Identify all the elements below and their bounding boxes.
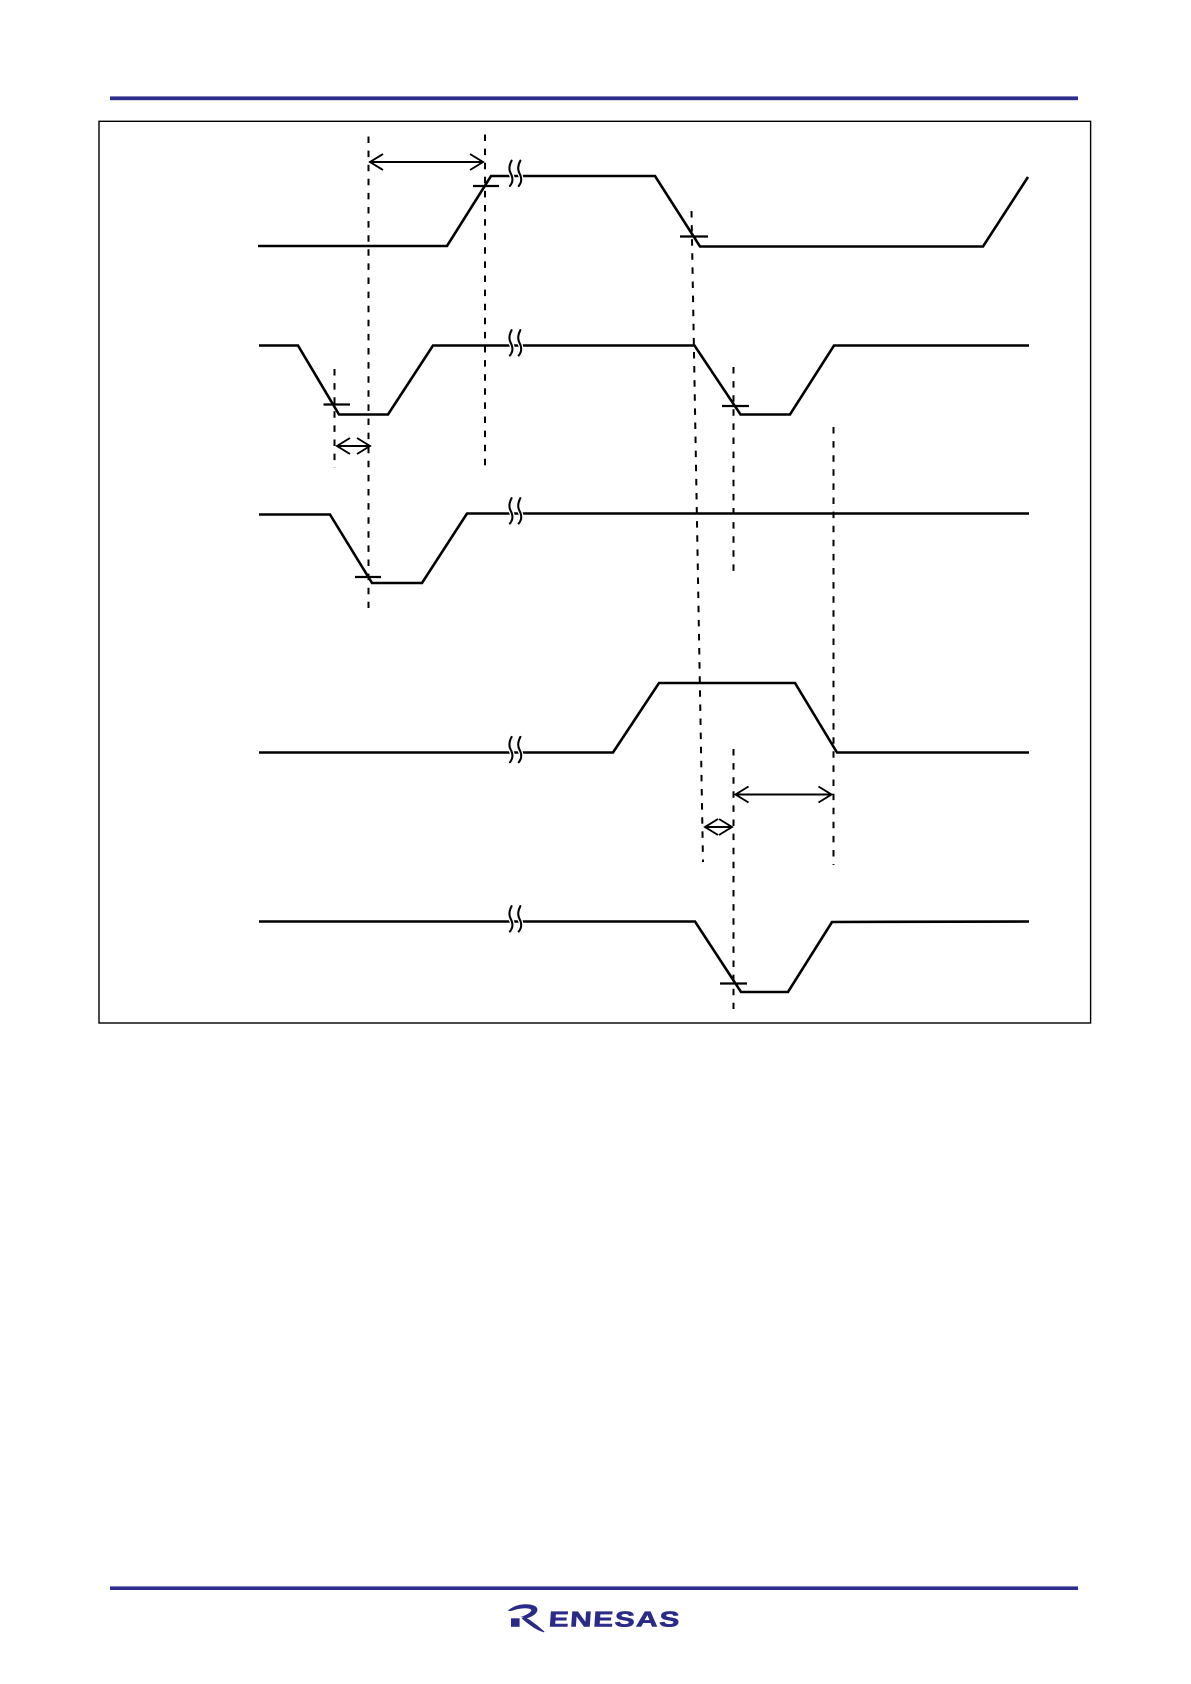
break symbol on signal 5 xyxy=(509,906,521,931)
dashed reference line t1 right xyxy=(484,135,486,471)
timing arrow t4 (middle right) xyxy=(735,787,832,803)
reference tick on signal 5 falling edge xyxy=(720,982,747,984)
reference tick on signal 2 left falling edge xyxy=(324,403,351,405)
logo square mark xyxy=(511,1618,520,1627)
footer rule xyxy=(110,1586,1078,1590)
dashed reference line t1 left xyxy=(368,137,370,609)
break symbol on signal 1 xyxy=(509,161,521,186)
timing arrow t3 (small, middle) xyxy=(705,819,733,835)
reference tick on signal 2 right falling edge xyxy=(722,405,749,407)
svg-text:ENESAS: ENESAS xyxy=(548,1607,682,1632)
signal 5 waveform xyxy=(259,922,1029,993)
break symbol on signal 3 xyxy=(509,498,521,523)
timing arrow t2 (small, left) xyxy=(337,438,371,454)
figure border box xyxy=(99,121,1091,1023)
break symbol on signal 4 xyxy=(509,737,521,762)
dashed reference line t4 right xyxy=(833,427,835,865)
header rule xyxy=(110,96,1078,100)
dashed reference line t3 left (slanted) xyxy=(692,211,704,862)
Renesas logo xyxy=(509,1605,682,1632)
reference tick on signal 1 rising edge xyxy=(473,185,499,187)
break symbol on signal 2 xyxy=(509,330,521,355)
reference tick on signal 3 falling edge xyxy=(355,576,381,578)
dashed reference line t3 right lower segment xyxy=(733,749,735,1009)
dashed reference line t2 left (short) xyxy=(334,369,336,468)
timing arrow t1 (top) xyxy=(370,154,484,170)
signal 3 waveform xyxy=(259,514,1029,584)
logo R squiggle xyxy=(509,1605,545,1632)
signal 4 waveform xyxy=(259,683,1029,753)
reference tick on signal 1 falling edge xyxy=(680,235,708,237)
dashed reference line t3 right upper segment xyxy=(733,367,735,571)
signal 2 waveform xyxy=(259,346,1029,415)
signal 1 waveform xyxy=(258,176,1028,247)
